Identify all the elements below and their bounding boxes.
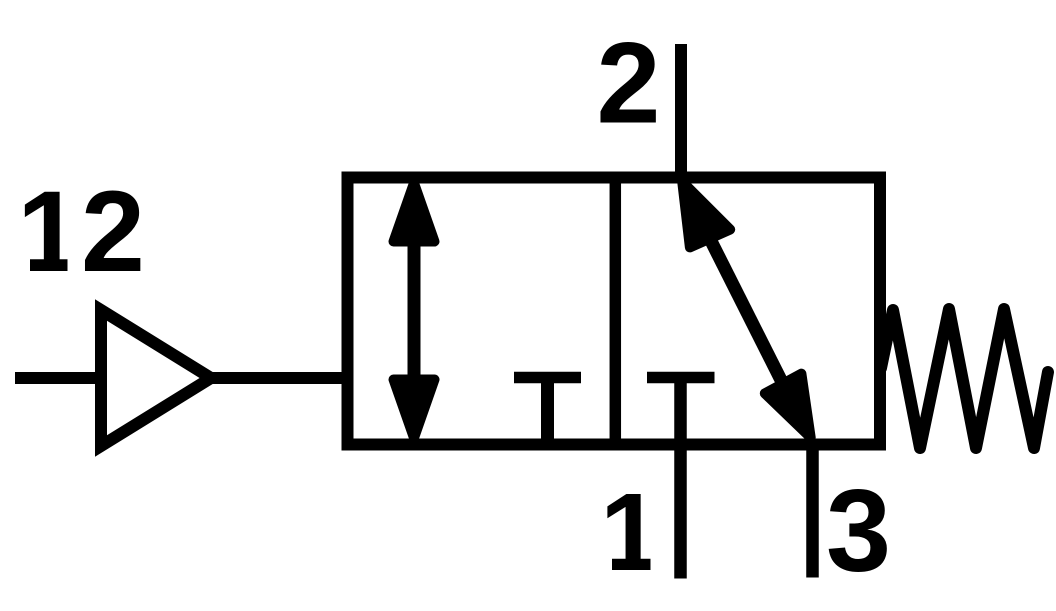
right cell blocked port T bar: [647, 372, 715, 384]
left cell double arrow bottom head: [394, 380, 435, 439]
label 12 foot serif trim (white): [18, 258, 30, 272]
svg-text:12: 12: [17, 168, 145, 296]
label 1 foot serif trim (white): [601, 556, 612, 571]
spring return: [881, 309, 1048, 448]
wire pilot to valve body: [211, 372, 348, 384]
valve body outline: [348, 178, 881, 445]
svg-text:1: 1: [600, 471, 661, 594]
port 1 line with blocked-port T stem: [674, 377, 687, 579]
left cell double arrow top head: [394, 183, 435, 242]
right cell diagonal arrow bottom head: [765, 374, 811, 438]
left cell blocked port T stem: [541, 380, 554, 448]
port 2 line: [675, 44, 687, 180]
right cell diagonal arrow top head: [682, 182, 730, 248]
wire pilot input stub: [15, 372, 101, 384]
right cell diagonal flow arrow shaft: [708, 235, 785, 388]
pilot actuator triangle (port 12): [101, 310, 211, 446]
left cell blocked port T bar: [514, 372, 581, 384]
svg-text:3: 3: [826, 465, 891, 596]
port 3 line: [806, 440, 819, 578]
left cell double arrow shaft: [408, 242, 421, 380]
svg-text:2: 2: [597, 20, 661, 148]
valve position divider: [610, 172, 622, 450]
